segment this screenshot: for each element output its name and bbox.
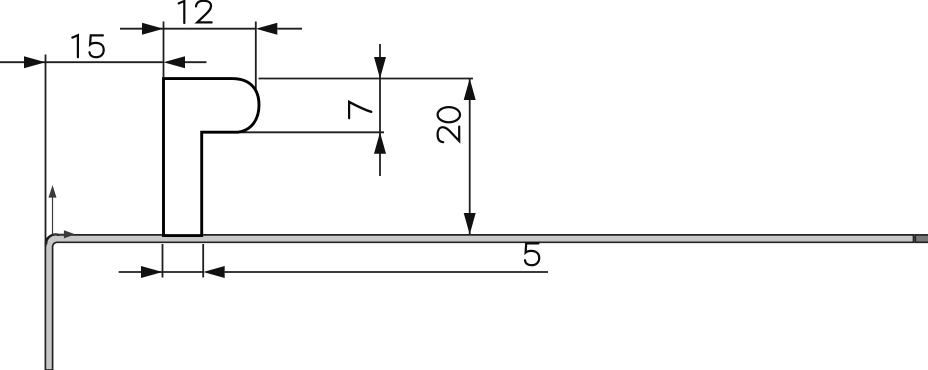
extension line inner edge y=132.3 (for 7 bottom)	[238, 131, 384, 133]
arrow 12 right (tip at x=255.8, pointing left)	[256, 23, 277, 35]
extension line 15-left (x=45.5)	[45, 55, 47, 247]
arrow 7 top (tip at y=78.5, pointing down)	[374, 57, 386, 79]
extension line 5-right (x=203.2)	[202, 244, 204, 278]
origin marker horizontal arrow	[53, 231, 74, 237]
sheet bend outer corner (thick line)	[46, 234, 59, 244]
arrow 20 top (tip at y=78.5, pointing up, inside)	[464, 79, 476, 101]
arrow 5 right (tip at x=203.2, pointing left)	[203, 266, 225, 278]
extension line 12/15 (x=163.5 above profile)	[163, 22, 165, 78]
arrow 20 bottom (tip at y=234.5, pointing down, inside)	[464, 213, 476, 235]
profile P-shape (thick outline, white fill)	[164, 79, 260, 236]
text 20 (rotated)	[438, 107, 460, 142]
dimension line 20 (x=469.7)	[469, 79, 471, 235]
extension line 12-right (x=255.8)	[255, 22, 257, 94]
dim 5 long right tail	[225, 271, 548, 273]
dimension line 5 (y=272)	[119, 271, 204, 273]
arrow 15 left (tip at x=45.5, pointing right)	[24, 56, 46, 68]
dim 12 right tail	[277, 28, 302, 30]
arrow 15 right (tip at x=163.5, pointing left)	[164, 56, 186, 68]
dimension line 7 (x=380)	[379, 44, 381, 176]
text 5 (bottom)	[525, 243, 539, 265]
dim 15 right tail	[185, 61, 207, 63]
text 15	[72, 35, 103, 57]
origin marker vertical arrow	[49, 187, 55, 234]
sheet end cap (dark gray, right edge)	[915, 235, 928, 242]
dimension line 15 (y=62)	[0, 61, 164, 63]
sheet-metal strip (bent L, light gray)	[45, 235, 913, 370]
text 12	[179, 1, 212, 23]
text 7 (rotated)	[349, 102, 371, 118]
arrow 12 left (tip at x=163.5, pointing right)	[142, 23, 164, 35]
dimension line 12 (y=28.7)	[120, 28, 256, 30]
extension line top edge y=78.5 (for 7 and 20)	[259, 78, 474, 80]
arrow 7 bottom (tip at y=132.3, pointing up)	[374, 132, 386, 154]
extension line 5-left (x=162.5)	[162, 244, 164, 278]
arrow 5 left (tip at x=162.5, pointing right)	[141, 266, 163, 278]
